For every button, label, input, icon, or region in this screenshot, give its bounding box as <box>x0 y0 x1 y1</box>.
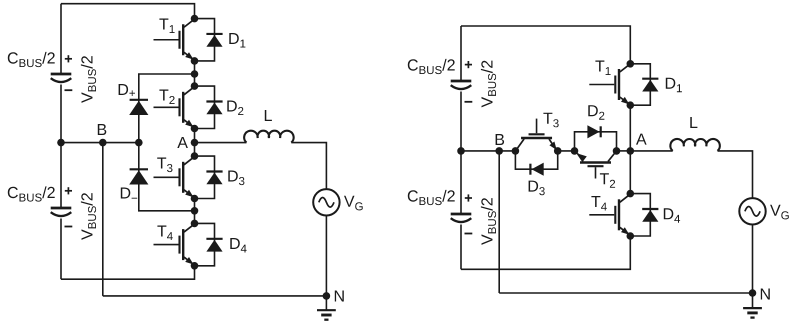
wire chain T1 emitter to T2 collector (left circuit) <box>194 61 196 86</box>
diode D1 (right circuit) <box>630 64 682 105</box>
wire top bus (left circuit) <box>61 4 195 19</box>
junction clamp+ node (left circuit) <box>191 70 199 78</box>
wire chain T4 emitter to bottom rail (right circuit) <box>461 236 630 269</box>
capacitor C_BUS/2 lower (right circuit) with + / - and V_BUS/2 label <box>408 190 496 245</box>
wire chain T4 emitter to bottom rail (left circuit) <box>61 266 195 279</box>
wire chain T1 emitter to T4 collector (right circuit) <box>629 105 631 193</box>
wire neutral bus B (left circuit) <box>61 142 139 144</box>
wire T2 cell to node A (right circuit) <box>617 150 631 152</box>
wire right DC rail middle segment (right circuit) <box>460 92 462 215</box>
transistor T3 (right circuit) <box>516 113 559 151</box>
junction T3 emitter (left circuit) <box>191 195 199 203</box>
junction T2 emitter (left circuit) <box>191 125 199 133</box>
transistor T4 (right circuit) <box>589 195 629 235</box>
wire inductor to source (left circuit) <box>291 143 326 190</box>
inductor L (right circuit) <box>670 117 719 151</box>
node A (right circuit) <box>627 134 647 155</box>
inductor L (left circuit) <box>244 110 293 143</box>
diode D- clamp (left circuit) <box>121 143 195 211</box>
diode D3 (right circuit) <box>529 163 545 196</box>
wire N bus (right circuit) <box>499 292 752 294</box>
capacitor C_BUS/2 lower (left circuit) with + / - and V_BUS/2 label <box>8 186 96 240</box>
wire left DC rail lower segment (left circuit) <box>60 219 62 280</box>
node N (right circuit) <box>749 289 770 300</box>
wire inductor to source (right circuit) <box>718 151 753 198</box>
junction clamp- node (left circuit) <box>191 207 199 215</box>
wire T2 top loop (right circuit) <box>575 132 617 151</box>
wire source to node N (right circuit) <box>752 225 754 294</box>
wire node N to ground (right circuit) <box>752 293 754 308</box>
wire left DC rail middle segment (left circuit) <box>60 85 62 209</box>
junction T4 collector (right circuit) <box>627 190 635 198</box>
capacitor C_BUS/2 upper (left circuit) with + / - and V_BUS/2 label <box>8 52 96 103</box>
transistor T2 (left circuit) <box>154 87 194 127</box>
node N (left circuit) <box>323 291 344 302</box>
junction T4 emitter (left circuit) <box>191 262 199 270</box>
junction T3 collector (left circuit) <box>191 152 199 160</box>
junction T4 emitter (right circuit) <box>627 232 635 240</box>
wire right DC rail upper segment (right circuit) <box>460 26 462 81</box>
wire N bus (left circuit) <box>103 295 327 297</box>
diode D2 (right circuit) <box>587 105 604 138</box>
wire node A to inductor (right circuit) <box>630 150 672 152</box>
wire from node B down to N bus (right circuit) <box>498 151 500 293</box>
wire top bus (right circuit) <box>461 26 630 64</box>
source V_G (right circuit) <box>739 198 789 224</box>
transistor T2 (right circuit) <box>577 152 616 188</box>
junction clamp branch-B bus (left circuit) <box>135 139 143 147</box>
wire T3 bottom loop (right circuit) <box>515 151 557 169</box>
ground (left circuit) <box>317 310 336 320</box>
source V_G (left circuit) <box>313 189 363 215</box>
wire from node B down to N bus (left circuit) <box>102 143 104 296</box>
wire node A to inductor (left circuit) <box>195 142 247 144</box>
node B (left circuit) <box>98 124 107 146</box>
ground (right circuit) <box>743 308 762 318</box>
junction T2 left node (right circuit) <box>571 147 579 155</box>
wire neutral bus B (right circuit) <box>461 150 515 152</box>
junction rail-B bus (right circuit) <box>457 147 465 155</box>
transistor T1 (left circuit) <box>154 19 194 60</box>
junction rail-B bus (left circuit) <box>57 139 65 147</box>
diode D1 (left circuit) <box>195 19 246 61</box>
junction T1 collector (right circuit) <box>627 60 635 68</box>
junction T1 collector (left circuit) <box>191 15 199 23</box>
wire chain T2 emitter to T3 collector (left circuit) <box>194 129 196 157</box>
junction T4 collector (left circuit) <box>191 220 199 228</box>
diode D3 (left circuit) <box>195 156 245 198</box>
wire chain T3 emitter to T4 collector (left circuit) <box>194 199 196 224</box>
junction T3 right node (right circuit) <box>554 147 562 155</box>
junction T1 emitter (left circuit) <box>191 57 199 65</box>
wire node N to ground (left circuit) <box>325 296 327 310</box>
wire left DC rail upper segment (left circuit) <box>60 4 62 74</box>
node B (right circuit) <box>495 134 504 155</box>
transistor T4 (left circuit) <box>154 224 194 264</box>
junction T2 collector (left circuit) <box>191 82 199 90</box>
junction T1 emitter (right circuit) <box>627 101 635 109</box>
junction T3 left node (right circuit) <box>512 147 520 155</box>
transistor T1 (right circuit) <box>589 61 629 105</box>
diode D+ clamp (left circuit) <box>119 74 195 143</box>
wire source to node N (left circuit) <box>325 216 327 296</box>
diode D4 (left circuit) <box>195 223 247 265</box>
transistor T3 (left circuit) <box>154 157 194 197</box>
wire T3 cell to T2 cell (right circuit) <box>558 150 575 152</box>
junction T2 right node (right circuit) <box>613 147 621 155</box>
node A (left circuit) <box>177 137 198 148</box>
diode D2 (left circuit) <box>195 86 244 128</box>
diode D4 (right circuit) <box>630 194 680 236</box>
wire right DC rail lower segment (right circuit) <box>460 225 462 270</box>
capacitor C_BUS/2 upper (right circuit) with + / - and V_BUS/2 label <box>408 59 496 108</box>
